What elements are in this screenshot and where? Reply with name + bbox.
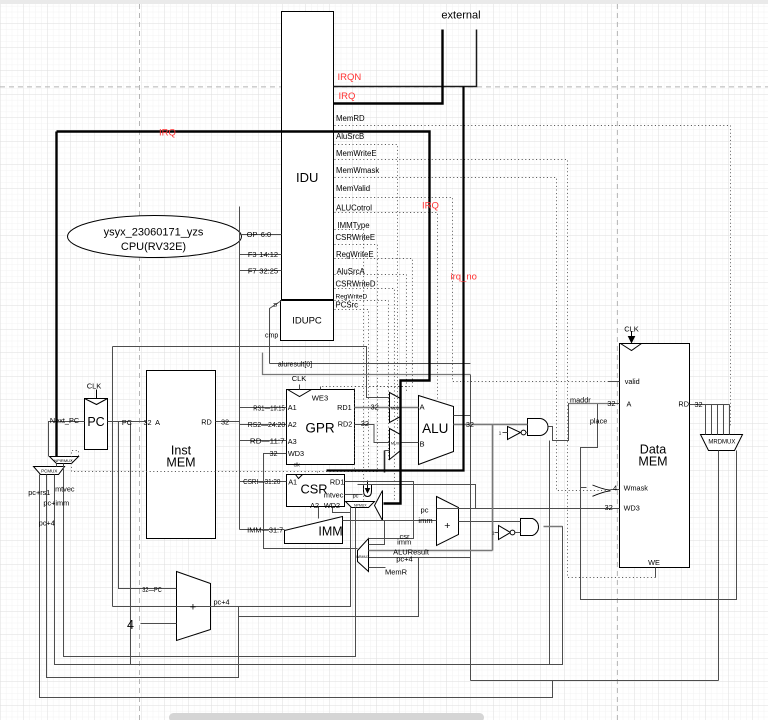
svg-text:RS1—19:15: RS1—19:15 [253, 403, 285, 412]
wire PC out to Inst MEM A [108, 421, 147, 423]
wire MemWmask (dashed) [335, 178, 609, 491]
wire MemValid (dashed) [335, 198, 609, 382]
adder pc+4 [177, 572, 211, 641]
wire WE3 stub on GPR [320, 387, 322, 390]
svg-text:CSRWriteE: CSRWriteE [336, 233, 376, 242]
svg-text:ysyx_23060171_yzs: ysyx_23060171_yzs [104, 227, 204, 239]
cpu title ellipse [68, 216, 242, 258]
register PC [85, 399, 108, 450]
browser chrome: bottom horizontal scrollbar [169, 713, 484, 720]
svg-text:pc+4: pc+4 [39, 518, 55, 527]
svg-text:MemValid: MemValid [336, 184, 370, 193]
svg-text:14:12: 14:12 [259, 250, 278, 259]
wire RD byte lane 2 [711, 405, 713, 435]
svg-text:PC: PC [87, 415, 104, 429]
wire CLK stub on GPR [299, 385, 301, 390]
wire NPCMUX to PCMUX connector [56, 464, 58, 467]
svg-text:F3: F3 [248, 250, 257, 259]
svg-text:place: place [590, 416, 607, 425]
wire into B mux lower input [385, 450, 390, 452]
svg-text:CSRWriteD: CSRWriteD [336, 279, 376, 288]
wire adder2 out to AND2 [459, 521, 521, 523]
block CSR [287, 475, 345, 507]
svg-text:RD—11:7: RD—11:7 [250, 437, 285, 446]
svg-text:RD1: RD1 [337, 403, 352, 412]
svg-text:MemR: MemR [385, 568, 408, 577]
wire CSRWriteD (dashed) [335, 289, 395, 501]
wire NOT1 out [526, 432, 528, 434]
svg-text:Wmask: Wmask [624, 484, 649, 493]
wire AND1 drop to bottom run [549, 441, 551, 665]
mux WBMUX [358, 539, 369, 572]
svg-text:MEM: MEM [638, 455, 667, 469]
svg-text:AluSrcB: AluSrcB [336, 132, 364, 141]
wire ALUResult drop [492, 425, 494, 551]
svg-text:RD: RD [678, 399, 689, 408]
svg-text:Next_PC: Next_PC [50, 416, 79, 425]
svg-text:4: 4 [127, 618, 134, 632]
wire RS2 24:20 [240, 424, 287, 426]
wire PCSrc long run to PCMUX (dashed) [72, 451, 378, 472]
wire zr from IDUPC [270, 301, 282, 364]
svg-text:IMM—31:7: IMM—31:7 [247, 526, 283, 535]
svg-text:OP: OP [247, 230, 258, 239]
svg-text:IMM: IMM [318, 524, 342, 538]
svg-text:pc+imm: pc+imm [43, 498, 69, 507]
svg-text:4: 4 [613, 483, 617, 492]
wire B mux out to ALU B [401, 442, 419, 444]
wire pc+imm loop from AND2 [55, 475, 563, 665]
svg-text:32: 32 [269, 449, 277, 458]
svg-text:pc+rs1: pc+rs1 [28, 488, 50, 497]
wire imm into WBMUX [369, 521, 385, 545]
clock wedge GPR [288, 390, 312, 397]
wire csr RD1 out [345, 482, 414, 539]
wire ALUResult row into WBMUX [369, 550, 493, 552]
wire AluSrcB (dashed) [335, 145, 398, 429]
gate AND2 [521, 519, 539, 536]
wire ALUCotrol (dashed) [335, 213, 438, 402]
wire RD2 jog into B mux [355, 425, 390, 443]
block GPR [287, 390, 355, 465]
svg-text:IRQ: IRQ [339, 91, 356, 102]
browser chrome: top strip [0, 0, 768, 4]
svg-text:PC: PC [122, 418, 132, 427]
wire F7 32:25 [240, 270, 282, 272]
svg-text:imm: imm [418, 516, 432, 525]
svg-text:MRDMUX: MRDMUX [708, 440, 735, 446]
wire mtvec loop [64, 464, 356, 657]
svg-text:IRQ: IRQ [159, 127, 176, 138]
svg-text:pc+4: pc+4 [396, 555, 412, 564]
wire MemWriteE (dashed) [335, 160, 656, 578]
wire instruction bus vertical [239, 207, 241, 530]
wire PCSrc (dashed) [335, 310, 369, 472]
wire NOT2 out [516, 532, 521, 534]
wire RS1 19:15 [240, 407, 287, 409]
wire CSRWriteE (dashed) [335, 245, 378, 472]
svg-text:A2: A2 [310, 501, 319, 510]
svg-text:RS2—24:20: RS2—24:20 [248, 420, 285, 429]
svg-text:32—PC: 32—PC [142, 585, 162, 594]
gate NOT1 [508, 427, 521, 440]
wire PC column drop 2 to adder [119, 422, 177, 589]
wire NOT1 input stub [503, 432, 508, 434]
svg-text:zr: zr [273, 303, 278, 309]
dashed box around GPR cluster [355, 387, 407, 472]
wire WE stub [655, 568, 657, 578]
svg-text:MEM: MEM [166, 456, 195, 470]
clock wedge CSR [296, 475, 303, 479]
svg-text:AluSrcA: AluSrcA [337, 267, 366, 276]
wire pc+4 row into WBMUX [369, 557, 471, 559]
svg-text:32: 32 [143, 418, 151, 427]
wire place [581, 404, 737, 600]
svg-text:CLK: CLK [87, 382, 102, 391]
clock wedge Data MEM [621, 344, 642, 351]
wire IRQN to external [334, 30, 477, 87]
svg-text:IMMType: IMMType [338, 221, 370, 230]
wire IRQ main loop (thick) [57, 132, 430, 504]
wire CSRI 31:20 [240, 481, 287, 483]
wire MRDMUX output [718, 451, 720, 681]
svg-text:+: + [444, 520, 450, 532]
svg-text:32: 32 [607, 399, 615, 408]
gate AND1 [528, 419, 549, 436]
wire RD 11:7 [240, 440, 287, 442]
svg-text:pc+4: pc+4 [213, 598, 229, 607]
block ALU [419, 396, 454, 465]
svg-text:MUX: MUX [391, 406, 400, 410]
wire IRQ drop to NPCMUX (thick) [55, 132, 57, 457]
wire cmp / aluresult[0] [270, 363, 471, 365]
wire RD byte lane 1 [705, 405, 707, 435]
wire RD byte lane 5 [729, 405, 731, 435]
wire NextPC into PC [49, 422, 85, 457]
wire mtvec out of CSR [345, 494, 363, 496]
block Inst MEM [147, 371, 216, 539]
svg-text:A3: A3 [288, 437, 297, 446]
svg-text:mtvec: mtvec [55, 484, 75, 493]
svg-text:32: 32 [694, 400, 702, 409]
red labels IRQN IRQ irq_no [159, 72, 477, 282]
svg-text:imm: imm [397, 538, 411, 547]
arrow inside funnel [367, 481, 369, 491]
block IMM sign-extender [285, 517, 343, 544]
svg-text:clk: clk [294, 463, 301, 469]
wire aluresult vertical right [470, 375, 472, 681]
svg-text:NPIRMUX: NPIRMUX [54, 458, 73, 463]
clock arrow Data MEM [631, 332, 633, 337]
funnel pc collector [364, 485, 372, 497]
wire into A mux second input [113, 347, 390, 398]
block IDUPC [281, 301, 334, 341]
svg-text:A: A [626, 400, 631, 409]
svg-text:PCMUX: PCMUX [41, 468, 57, 473]
svg-text:maddr: maddr [570, 396, 591, 405]
wire Data MEM RD out [690, 404, 730, 406]
mux ALU-B [390, 429, 401, 460]
svg-text:RegWriteD: RegWriteD [336, 294, 368, 301]
block Data MEM [620, 344, 690, 568]
svg-text:F7: F7 [248, 266, 257, 275]
svg-text:valid: valid [625, 377, 640, 386]
mux PCMUX [34, 467, 65, 475]
wire NOT2 input stub [495, 532, 499, 534]
wire pc+rs1 loop [40, 475, 553, 698]
wire imm short vertical in cluster [384, 451, 386, 473]
wire CLK stub PC [96, 390, 98, 399]
wire AND1 out to maddr [549, 404, 620, 441]
block IDU [282, 12, 334, 300]
wire RD byte lane 4 [723, 405, 725, 435]
svg-text:IRQN: IRQN [338, 72, 362, 83]
wire ALU side tap [454, 415, 471, 417]
svg-text:ALUCotrol: ALUCotrol [336, 203, 372, 212]
wire PC column drop 1 [112, 347, 114, 607]
svg-text:WD3: WD3 [624, 504, 640, 513]
svg-text:WE3: WE3 [312, 394, 328, 403]
adder pc+imm [437, 497, 459, 546]
svg-text:IRQ: IRQ [422, 200, 439, 211]
mux MRDMUX [701, 435, 743, 451]
wire constant 4 into adder [141, 623, 177, 625]
svg-text:A: A [155, 418, 160, 427]
wire aluresult[0] horizontal [263, 353, 471, 375]
svg-text:IDU: IDU [296, 170, 318, 185]
svg-text:A1: A1 [288, 477, 297, 486]
wire ALU output 32 [454, 424, 528, 426]
funnel Wmask width-converter [593, 485, 611, 496]
wire OP 6:0 [240, 234, 282, 236]
svg-text:pc: pc [421, 506, 429, 515]
svg-text:RegWriteE: RegWriteE [336, 250, 374, 259]
svg-text:MemWriteE: MemWriteE [336, 149, 377, 158]
svg-text:WBMUX: WBMUX [356, 555, 370, 559]
wire Inst MEM RD out [216, 421, 240, 423]
wire MemRD (dashed) [335, 126, 731, 428]
wire WD3 writeback to GPR [264, 454, 358, 549]
svg-text:32: 32 [466, 420, 474, 429]
svg-text:NPMUX: NPMUX [354, 503, 367, 507]
svg-text:ALU: ALU [422, 421, 448, 436]
svg-text:MemRD: MemRD [336, 114, 365, 123]
svg-text:MemWmask: MemWmask [336, 166, 379, 175]
svg-text:RD: RD [201, 418, 212, 427]
svg-text:32: 32 [605, 503, 613, 512]
svg-text:RD2: RD2 [338, 419, 353, 428]
mux small flat trapezoid [346, 502, 375, 508]
svg-text:PCSrc: PCSrc [336, 301, 359, 310]
wire pc from funnel to adder2 [358, 485, 476, 509]
mux NPCMUX [50, 457, 79, 464]
wire pc+4 bottom run to MRDMUX column [471, 680, 719, 682]
wire Wmask stub [611, 489, 620, 491]
wire CSR A2 stub [318, 507, 320, 519]
wire valid stub [609, 381, 620, 383]
wire pc+4 branch right [239, 558, 419, 617]
svg-text:external: external [441, 10, 480, 22]
wire imm row to adder2 [343, 520, 437, 522]
wire AluSrcA (dashed) [335, 275, 407, 393]
svg-text:A2: A2 [288, 420, 297, 429]
wire CSR WD2 stub [333, 507, 351, 513]
svg-text:GPR: GPR [305, 420, 335, 435]
wire RD byte lane 3 [717, 405, 719, 435]
svg-text:+: + [190, 602, 196, 614]
svg-text:CPU(RV32E): CPU(RV32E) [121, 241, 186, 253]
gate NOT2 [499, 526, 511, 540]
wire IMM 31:7 [240, 529, 285, 531]
wire IRQ to external (thick) [334, 30, 443, 104]
svg-text:irq_no: irq_no [451, 271, 477, 282]
wire CSRWriteE drop into CSR clk (dashed) [317, 472, 319, 475]
svg-text:32: 32 [361, 419, 369, 428]
wire adder output pc+4 [47, 475, 239, 678]
wire RegWriteD (dashed) [335, 301, 389, 461]
svg-text:cmp: cmp [265, 333, 278, 340]
wire Wmask tick [581, 487, 587, 489]
wire maddr horizontal [569, 403, 609, 405]
svg-text:WD2: WD2 [324, 501, 340, 510]
svg-text:32: 32 [221, 418, 229, 427]
svg-text:MUX: MUX [391, 441, 400, 445]
svg-text:pc: pc [353, 493, 359, 499]
wire IMMType (dashed) [335, 230, 364, 502]
svg-text:aluresult[0]: aluresult[0] [278, 362, 312, 369]
wire irq_no vertical (thick) [327, 87, 464, 471]
wire PC column drop 3 [130, 422, 132, 665]
svg-text:mtvec: mtvec [324, 491, 344, 500]
svg-text:CLK: CLK [624, 325, 639, 334]
wire AND2 output [544, 526, 563, 528]
wire pc+4 return run through adder [113, 508, 351, 607]
wire F3 14:12 [240, 254, 282, 256]
wire WD3 row to Data MEM [476, 508, 620, 510]
wire GPR RD1 to ALU A [355, 407, 419, 409]
svg-text:RD1: RD1 [330, 477, 345, 486]
svg-text:CLK: CLK [292, 374, 307, 383]
mux left-pointing triangle [375, 491, 383, 521]
svg-text:IDUPC: IDUPC [292, 315, 322, 326]
svg-text:WE: WE [648, 558, 660, 567]
svg-text:6:0: 6:0 [261, 230, 271, 239]
svg-text:A1: A1 [288, 403, 297, 412]
svg-text:32:25: 32:25 [259, 266, 278, 275]
svg-text:B: B [420, 439, 425, 448]
svg-text:32: 32 [371, 403, 379, 412]
svg-text:CSRI—31:20: CSRI—31:20 [243, 477, 280, 486]
wire MemR row [369, 567, 386, 569]
clock wedge PC [85, 399, 108, 405]
wire RegWriteE (dashed) [321, 259, 413, 387]
svg-text:WD3: WD3 [288, 449, 304, 458]
mux ALU-A [390, 393, 401, 423]
